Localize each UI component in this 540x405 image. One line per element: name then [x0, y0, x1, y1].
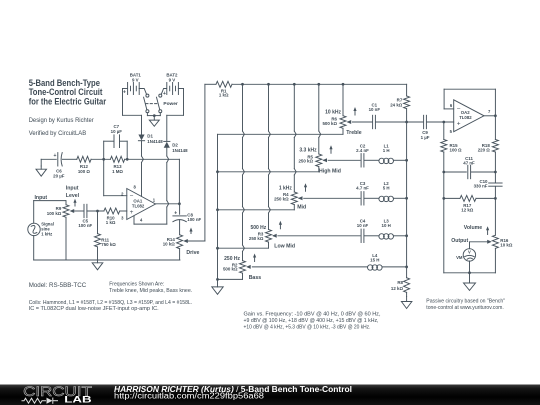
wire R10 to OA1 plus: [120, 210, 127, 212]
label Low Mid: [274, 243, 295, 249]
svg-text:R8: R8: [397, 280, 403, 285]
svg-text:5 H: 5 H: [383, 186, 390, 191]
op-amp OA1 TL082: [121, 185, 156, 223]
ground ladder: [212, 279, 223, 294]
ground input rail: [92, 260, 103, 270]
resistor R1 1k: [205, 81, 232, 97]
resistor R7 24k: [390, 84, 409, 122]
wire summing bus: [406, 122, 408, 267]
node plus-line junction: [96, 210, 99, 213]
wire OA1 minus input: [104, 159, 127, 195]
svg-text:+: +: [54, 153, 57, 159]
arrow lowmid: [279, 221, 282, 229]
svg-text:TL082: TL082: [132, 203, 145, 208]
title text: [29, 78, 107, 107]
node OA2 output junction: [494, 114, 497, 117]
svg-text:Mid: Mid: [297, 205, 306, 211]
node bus-mid: [405, 197, 408, 200]
svg-text:VM: VM: [456, 255, 463, 260]
wire L2 to bus: [393, 197, 406, 199]
footer bar: [0, 385, 540, 405]
wire C9 to OA2 plus: [427, 121, 454, 123]
svg-text:High Mid: High Mid: [319, 168, 341, 174]
wire OA2 feedback: [444, 89, 495, 116]
node output ground junction: [468, 271, 471, 274]
svg-text:Treble: Treble: [346, 130, 361, 136]
svg-text:Output: Output: [451, 238, 468, 244]
wire OA2 output: [484, 115, 495, 117]
wire treble wiper: [352, 121, 372, 123]
arrow treble: [353, 107, 356, 115]
potentiometer R5 250k High Mid: [298, 148, 327, 167]
wire left output column: [443, 172, 445, 273]
svg-text:http://circuitlab.com/cm229fbp: http://circuitlab.com/cm229fbp56a68: [114, 392, 264, 401]
wire output node: [469, 241, 471, 243]
wire row treble-bottom: [218, 128, 344, 134]
resistor R12 100 Ohm: [77, 156, 91, 174]
wire row lowmid-bottom: [218, 242, 269, 248]
wire C4 to L3: [364, 235, 379, 237]
wire drive to R1: [204, 84, 206, 241]
svg-text:9 V: 9 V: [132, 77, 139, 82]
svg-text:tone-control at www.yuriturov.: tone-control at www.yuriturov.com.: [426, 305, 504, 311]
svg-text:Model: RS-5BB-TCC: Model: RS-5BB-TCC: [29, 282, 87, 289]
resistor R10 1k: [104, 208, 120, 225]
ground output: [464, 273, 476, 291]
svg-text:4.7 nF: 4.7 nF: [356, 186, 369, 191]
svg-text:100 kΩ: 100 kΩ: [47, 211, 62, 216]
svg-text:330 nF: 330 nF: [474, 184, 488, 189]
label Mid: [297, 205, 306, 211]
passive note: [426, 299, 505, 312]
svg-text:Gain vs. Frequency: -10 dBV @: Gain vs. Frequency: -10 dBV @ 40 Hz, 0 d…: [244, 311, 381, 317]
label Treble: [346, 130, 361, 136]
resistor R8 12k: [391, 267, 410, 297]
node gbus-C: [216, 170, 219, 173]
inductor L4 15H: [368, 253, 383, 270]
battery BAT1: [123, 73, 147, 96]
frequencies note: [109, 282, 192, 294]
wire BAT2 right loop: [167, 89, 184, 116]
svg-text:1 kΩ: 1 kΩ: [106, 220, 116, 225]
wire C5 to R10: [87, 210, 104, 212]
svg-text:10 H: 10 H: [382, 223, 391, 228]
diode D1 1N4148: [138, 115, 163, 144]
wire feedback line: [41, 158, 56, 160]
svg-text:12 kΩ: 12 kΩ: [391, 286, 404, 291]
svg-text:LAB: LAB: [64, 395, 91, 405]
svg-text:9 V: 9 V: [169, 77, 176, 82]
svg-text:10 kΩ: 10 kΩ: [500, 243, 513, 248]
svg-text:V: V: [468, 249, 471, 254]
svg-text:+: +: [174, 210, 177, 216]
svg-text:Treble knee, Mid peaks, Bass k: Treble knee, Mid peaks, Bass knee.: [109, 288, 192, 294]
svg-text:10 kHz: 10 kHz: [325, 110, 341, 116]
svg-text:Drive: Drive: [186, 250, 199, 256]
label Bass: [249, 275, 262, 281]
node OA1 output junction: [178, 202, 181, 205]
potentiometer R2 500k Bass: [223, 256, 251, 273]
svg-text:100 Ω: 100 Ω: [450, 148, 463, 153]
arrow bass: [253, 254, 256, 262]
wire switch to ground: [147, 113, 160, 116]
svg-text:Bass: Bass: [249, 275, 262, 281]
svg-text:47 nF: 47 nF: [463, 160, 475, 165]
svg-text:500 kΩ: 500 kΩ: [223, 267, 238, 272]
wire R13 to output node: [125, 159, 180, 204]
label Input Level: [66, 185, 80, 199]
svg-text:Passive circuitry based on "Be: Passive circuitry based on "Bench": [426, 299, 505, 305]
resistor R11 750k: [95, 211, 117, 260]
wire output bottom rail: [444, 272, 496, 274]
resistor R13 1 MOhm: [110, 156, 124, 174]
arrow highmid: [329, 145, 332, 153]
node OA2 plus junction: [442, 121, 445, 124]
svg-text:Verified by CircuitLAB: Verified by CircuitLAB: [29, 130, 86, 137]
svg-text:Input: Input: [34, 195, 47, 201]
svg-text:250 Hz: 250 Hz: [224, 256, 240, 262]
node rail-bass: [241, 83, 244, 86]
wire row highmid-bottom: [218, 167, 319, 172]
svg-text:12 kΩ: 12 kΩ: [461, 207, 474, 212]
source V1 signal sine: [28, 201, 54, 260]
capacitor C6 20uF: [53, 153, 65, 179]
wire BAT1 left loop: [123, 89, 142, 116]
svg-text:Frequencies Shown Are:: Frequencies Shown Are:: [109, 282, 164, 288]
svg-text:TL082: TL082: [459, 115, 472, 120]
capacitor C3 4.7nF: [356, 181, 369, 205]
wire highmid wiper: [328, 159, 360, 161]
wire D1 to OA1 pin8: [142, 141, 144, 197]
node rail-mid: [293, 83, 296, 86]
op-amp OA2 TL082: [450, 100, 491, 134]
wire column treble: [342, 84, 344, 115]
coils note: [29, 300, 193, 312]
wire mid wiper: [304, 197, 361, 199]
potentiometer R6 500k Treble: [322, 110, 351, 129]
svg-text:500 kΩ: 500 kΩ: [322, 121, 337, 126]
svg-text:10 nF: 10 nF: [369, 107, 381, 112]
node gbus-F: [216, 278, 219, 281]
potentiometer R4 250k Mid: [274, 186, 302, 205]
capacitor C7 10uF: [104, 124, 128, 159]
svg-text:D2: D2: [172, 142, 178, 147]
svg-text:1 MΩ: 1 MΩ: [112, 169, 123, 174]
CircuitLab logo: [22, 384, 353, 405]
node bus-bass: [405, 266, 408, 269]
svg-text:IC = TL082CP dual low-noise JF: IC = TL082CP dual low-noise JFET-input o…: [29, 306, 159, 312]
wire column highmid: [319, 84, 321, 154]
wire row mid-bottom: [218, 205, 295, 210]
node R17 left: [442, 197, 445, 200]
node R17 right: [494, 197, 497, 200]
label Volume: [464, 225, 482, 231]
svg-text:Volume: Volume: [464, 225, 482, 231]
inductor L2 5H: [379, 181, 394, 201]
capacitor C2 2.4nF: [356, 144, 369, 168]
svg-text:750 kΩ: 750 kΩ: [101, 242, 116, 247]
wire L4 to bus: [382, 266, 407, 268]
inductor L1 1H: [379, 144, 394, 164]
svg-text:24 kΩ: 24 kΩ: [390, 103, 403, 108]
diode D2 1N4148: [164, 115, 188, 153]
wire column mid: [294, 84, 296, 192]
arrow volume: [486, 226, 489, 234]
battery BAT2: [161, 73, 183, 98]
node rail-lowmid: [267, 83, 270, 86]
resistor R15 100 Ohm: [441, 122, 462, 172]
wire C6 to R12: [62, 158, 76, 160]
arrow drive: [189, 228, 192, 234]
svg-text:3.3 kHz: 3.3 kHz: [299, 148, 317, 154]
wire C1 to bus: [376, 121, 407, 123]
svg-text:15 H: 15 H: [370, 257, 379, 262]
wire top rail: [232, 83, 407, 85]
svg-text:10 µF: 10 µF: [111, 129, 123, 134]
ground C6: [36, 159, 47, 176]
svg-text:1 kΩ: 1 kΩ: [219, 93, 229, 98]
capacitor C8 100nF: [173, 204, 202, 235]
label Drive: [186, 250, 199, 256]
wire bus to C9: [407, 121, 423, 123]
wire bottom rail: [34, 259, 180, 261]
capacitor C4 10nF: [357, 219, 369, 243]
svg-text:+: +: [130, 209, 134, 216]
voltmeter VM: [456, 242, 476, 273]
arrow mid: [304, 183, 307, 191]
svg-text:250 kΩ: 250 kΩ: [249, 236, 264, 241]
wire row bass-bottom: [218, 273, 243, 279]
svg-text:250 kΩ: 250 kΩ: [298, 159, 313, 164]
svg-text:1 H: 1 H: [383, 148, 390, 153]
node Input: [34, 195, 66, 201]
svg-text:100 nF: 100 nF: [78, 223, 92, 228]
wire R12 to R13: [91, 158, 110, 160]
svg-text:D1: D1: [147, 133, 153, 138]
node gbus-D: [216, 208, 219, 211]
wire C2 to L1: [364, 159, 379, 161]
node bus-treble: [405, 121, 408, 124]
capacitor C5 100nF: [78, 204, 92, 228]
resistor R18 220 Ohm: [478, 116, 499, 172]
gain note: [244, 311, 381, 330]
svg-text:Low Mid: Low Mid: [274, 243, 295, 249]
svg-text:1 kHz: 1 kHz: [41, 232, 52, 237]
svg-text:1 kHz: 1 kHz: [279, 186, 293, 192]
wire column bass: [243, 84, 245, 260]
ground R8: [401, 297, 412, 309]
wire C3 to L2: [364, 197, 379, 199]
capacitor C9 1uF: [421, 115, 430, 140]
label Output: [451, 238, 468, 244]
capacitor C10 330nF: [474, 172, 503, 198]
switch SW1 Power: [144, 94, 178, 113]
wire ground bus: [217, 134, 219, 279]
svg-text:100 nF: 100 nF: [187, 217, 201, 222]
ground power: [149, 116, 159, 127]
svg-text:2.4 nF: 2.4 nF: [356, 148, 369, 153]
svg-text:Design by Kurtus Richter: Design by Kurtus Richter: [29, 117, 94, 124]
svg-text:+10 dBV @ 4 kHz, +5.3 dBV @ 10: +10 dBV @ 4 kHz, +5.3 dBV @ 10 kHz, -3 d…: [244, 324, 371, 330]
resistor R17 12k: [444, 195, 496, 212]
node rail-highmid: [317, 83, 320, 86]
svg-text:220 Ω: 220 Ω: [478, 148, 491, 153]
node switch-ground junction: [153, 114, 156, 117]
svg-text:1N4148: 1N4148: [147, 139, 163, 144]
svg-text:+9 dBV @ 100 Hz, +18 dBV @ 400: +9 dBV @ 100 Hz, +18 dBV @ 400 Hz, +15 d…: [244, 318, 379, 324]
node feedback junction B: [126, 158, 129, 161]
svg-text:1N4148: 1N4148: [172, 148, 188, 153]
wire L3 to bus: [393, 235, 406, 237]
svg-text:500 Hz: 500 Hz: [250, 225, 266, 231]
svg-text:+: +: [457, 121, 461, 128]
potentiometer R14 10k Drive: [163, 235, 205, 260]
node C11 right: [494, 171, 497, 174]
wire bass wiper: [252, 266, 367, 268]
node gbus-E: [216, 247, 219, 250]
svg-text:+: +: [163, 91, 166, 97]
inductor L3 10H: [379, 219, 394, 239]
wire OA1 output: [156, 203, 180, 205]
byline text: [29, 117, 94, 137]
svg-text:Power: Power: [163, 101, 178, 107]
wire lowmid wiper: [278, 235, 360, 237]
svg-text:100 Ω: 100 Ω: [78, 169, 91, 174]
model text: [29, 282, 87, 289]
svg-text:20 µF: 20 µF: [53, 173, 65, 178]
capacitor C11 47nF: [444, 156, 496, 179]
svg-text:10 nF: 10 nF: [357, 223, 369, 228]
arrow input level: [73, 199, 76, 206]
capacitor C1 10nF: [369, 103, 381, 129]
svg-text:250 kΩ: 250 kΩ: [274, 196, 289, 201]
potentiometer R16 10k Volume: [470, 198, 513, 272]
svg-text:+: +: [123, 89, 126, 95]
node bus-lowmid: [405, 234, 408, 237]
svg-text:1 µF: 1 µF: [421, 135, 430, 140]
node C11 left: [442, 171, 445, 174]
wire D2 to OA1 pin4: [134, 148, 169, 224]
node rail-treble: [342, 83, 345, 86]
potentiometer R3 250k Low Mid: [249, 225, 277, 242]
svg-text:Level: Level: [66, 193, 80, 199]
svg-text:Input: Input: [66, 185, 79, 191]
wire L1 to bus: [393, 159, 406, 161]
label High Mid: [319, 168, 341, 174]
node feedback junction A: [102, 158, 105, 161]
svg-text:10 kΩ: 10 kΩ: [163, 242, 176, 247]
potentiometer R9 100k Input Level: [47, 201, 84, 260]
wire column lowmid: [269, 84, 271, 229]
node bus-highmid: [405, 159, 408, 162]
svg-text:for the Electric Guitar: for the Electric Guitar: [29, 97, 107, 107]
